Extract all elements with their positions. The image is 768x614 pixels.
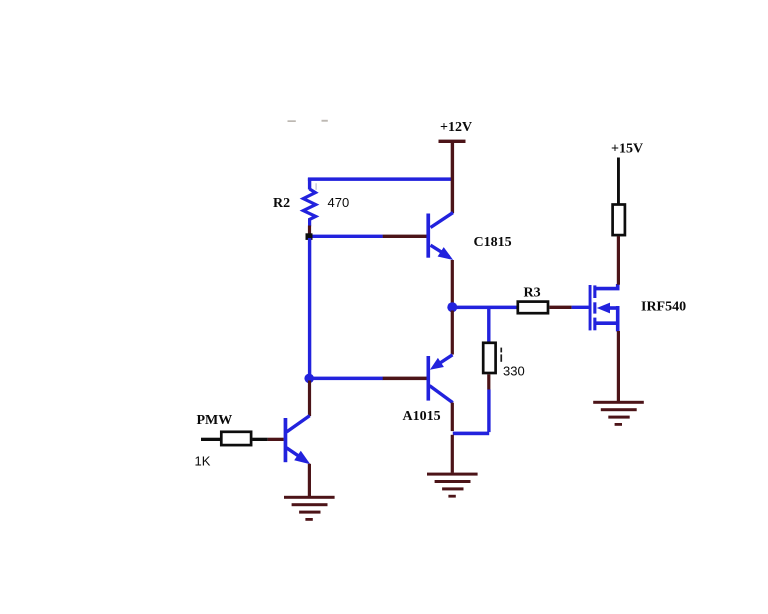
- junction output node dot: [447, 302, 457, 312]
- wire Q1 emitter to ground: [308, 464, 311, 497]
- svg-text:R3: R3: [524, 286, 541, 301]
- resistor R2 (zigzag): [303, 189, 315, 226]
- ground (A1015): [427, 473, 478, 498]
- transistor Q1 NPN (input): [284, 416, 311, 465]
- wire R3 to gate (dark): [549, 306, 571, 309]
- transistor C1815 NPN: [426, 213, 453, 260]
- svg-text:470: 470: [328, 195, 350, 210]
- wire source to ground: [617, 331, 620, 401]
- wire down to Q1 collector: [308, 381, 311, 417]
- wire bottom node horizontal: [453, 432, 489, 436]
- +12V power symbol: [439, 120, 473, 143]
- svg-text:A1015: A1015: [403, 409, 441, 424]
- resistor 330: [483, 307, 495, 432]
- wire vertical between junctions: [308, 238, 311, 377]
- resistor R3: [518, 302, 548, 314]
- wire R2 top lead: [308, 178, 311, 190]
- artifact dashed tick beside 330: [500, 348, 502, 353]
- wire resistor to drain: [617, 236, 620, 285]
- wire output node to R3: [452, 306, 517, 310]
- svg-text:IRF540: IRF540: [641, 300, 686, 315]
- wire +15V lead (black): [617, 158, 620, 205]
- svg-text:R2: R2: [273, 196, 290, 211]
- svg-text:+15V: +15V: [611, 142, 643, 157]
- wire C1815 emitter down: [451, 260, 454, 303]
- wire output node down to A1015 emitter: [451, 311, 454, 355]
- wire lower horizontal blue (to A1015): [309, 377, 383, 381]
- wire bottom node to ground: [451, 435, 454, 473]
- artifact gray dash right: [322, 120, 328, 122]
- svg-text:330: 330: [503, 364, 525, 379]
- wire +12V rail vertical: [451, 141, 454, 213]
- wire R2 bottom dark lead: [308, 226, 311, 235]
- artifact tick near R2 top: [315, 183, 317, 190]
- junction black square: [306, 233, 313, 240]
- artifact gray dash left: [288, 120, 296, 122]
- svg-text:PMW: PMW: [197, 413, 233, 428]
- ground (IRF540): [593, 401, 644, 426]
- svg-text:C1815: C1815: [474, 235, 512, 250]
- wire base rail dark (to C1815 base): [383, 235, 428, 238]
- wire A1015 collector down: [451, 403, 454, 432]
- ground (Q1): [284, 496, 335, 521]
- junction node dot: [304, 374, 314, 384]
- wire R3 to gate (blue): [572, 306, 589, 309]
- wire base rail blue (to C1815): [308, 235, 383, 238]
- resistor 1K (input): [201, 432, 284, 445]
- transistor A1015 PNP: [427, 355, 453, 403]
- svg-text:1K: 1K: [195, 454, 211, 469]
- wire top horizontal to R2: [308, 177, 454, 181]
- resistor (drain, unlabeled): [613, 205, 625, 236]
- svg-text:+12V: +12V: [440, 120, 472, 135]
- wire lower horizontal dark (A1015 base): [383, 377, 427, 381]
- MOSFET IRF540: [589, 284, 620, 331]
